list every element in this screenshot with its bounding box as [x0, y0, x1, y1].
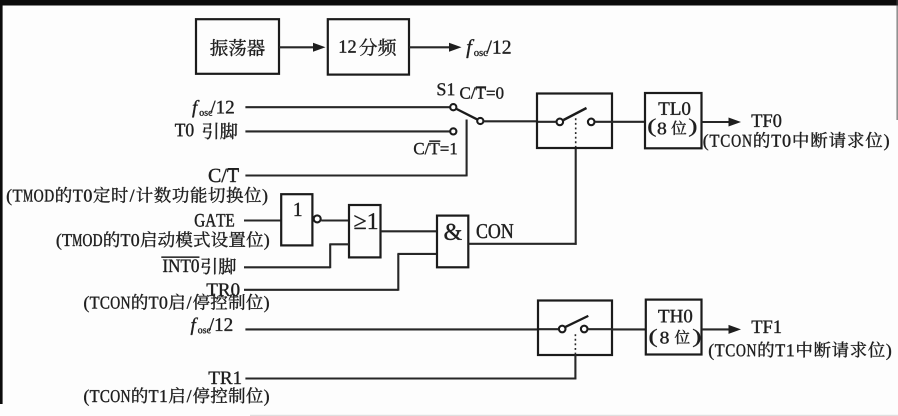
label: 12 分频 (divide by 12): [340, 38, 396, 56]
wire: AND output horizontal (CON): [468, 243, 576, 245]
wire: stub into T1 switch left contact: [538, 328, 558, 330]
scan border: right faint line: [896, 0, 898, 120]
label: GATE: [195, 214, 234, 227]
wire: stub into T0 switch left contact: [537, 121, 556, 123]
label: TH0: [658, 310, 692, 323]
wire: S1 pole to count-enable switch: [483, 120, 537, 122]
caption: TMOD 的 T0 定时/计数功能切换位: [7, 187, 267, 206]
gate: AND box (&): [437, 216, 468, 268]
wire: fosc/12 to T1 switch: [245, 328, 538, 330]
label: fosc/12 (timer 1 input): [191, 318, 233, 335]
wire: INT0 riser to OR gate: [329, 243, 349, 245]
wire: TR0 horizontal: [244, 289, 398, 291]
caption: TMOD 的 T0 启动模式设置位: [57, 231, 269, 250]
label: T0 引脚 (T0 pin): [175, 123, 237, 140]
label: TF0 interrupt flag: [752, 114, 782, 127]
block: TL0 register box: [645, 93, 702, 148]
label: C/T control bit: [209, 168, 239, 182]
switch T1: right contact: [581, 326, 588, 333]
wire: inverter bubble to OR gate: [321, 219, 349, 221]
gate: OR box (≥1): [349, 205, 381, 257]
label: OR gate ≥1: [355, 213, 378, 229]
label: AND gate &: [445, 224, 462, 240]
wire: switch to TL0: [612, 121, 645, 123]
wire: fosc/12 to S1 top contact: [245, 106, 450, 108]
wire: TL0 to TF0 with arrowhead: [701, 118, 741, 127]
gate: inverter box (1): [281, 194, 312, 245]
wire: stub from T0 switch right contact: [595, 121, 612, 123]
label: INT0 引脚 (INT0 pin): [161, 256, 236, 274]
caption: TCON 的 T0 启/停控制位: [84, 294, 269, 313]
switch S1: bottom contact: [450, 128, 456, 134]
wire: T0 pin to S1 bottom contact: [245, 130, 450, 132]
scan border: bottom faint line: [250, 415, 898, 416]
wire: CON riser to count switch: [575, 148, 577, 245]
wire: INT0 to OR gate (horizontal): [244, 266, 330, 268]
label: 振荡器 (oscillator): [210, 39, 265, 56]
label: fosc/12 (timer input): [192, 100, 234, 117]
label: TR0: [207, 283, 240, 296]
wire: TR1 riser to T1 switch: [574, 355, 576, 380]
wire: OR gate to AND gate: [381, 230, 438, 232]
switch T1: left contact: [559, 326, 566, 333]
wire: INT0 riser: [329, 244, 331, 268]
block: oscillator box (振荡器): [196, 19, 279, 74]
wire: CON(T1) dotted link inside switch box: [574, 332, 576, 355]
wire: oscillator to divider with arrowhead: [279, 43, 326, 52]
scan border: left black line: [0, 0, 3, 404]
switch S1: arm: [456, 109, 478, 120]
caption: TCON 的 T0 中断请求位: [704, 132, 889, 151]
wire: GATE to inverter: [244, 219, 282, 221]
wire: TR1 horizontal: [245, 377, 576, 379]
caption: TCON 的 T1 启/停控制位: [84, 387, 269, 406]
scan border: top black bar: [0, 0, 898, 6]
wire: TH0 to TF1 with arrowhead: [702, 325, 741, 334]
wire: C/T riser to S1: [466, 120, 468, 177]
label: fosc/12 (top output): [466, 39, 510, 58]
wire: divider output with arrowhead: [409, 43, 462, 52]
label: C/T=1: [414, 140, 457, 154]
switch: count-enable switch box (T0): [537, 94, 612, 149]
label: TL0: [659, 102, 691, 115]
wire: TR0 riser to AND gate: [397, 253, 437, 255]
label: TL0 (8 位): [648, 119, 696, 137]
label: C/T=0: [460, 86, 503, 99]
wire: T1 switch to TH0: [612, 328, 646, 330]
label: TF1 interrupt flag: [752, 321, 781, 334]
gate: inverter output bubble: [314, 215, 321, 222]
label: switch S1 designator: [438, 83, 455, 95]
switch: count-enable switch box (T1): [538, 301, 612, 356]
switch T0: right contact: [588, 119, 595, 126]
label: inverter 1: [295, 203, 302, 216]
switch S1: top contact: [450, 104, 456, 110]
wire: C/T to S1 (horizontal): [245, 174, 466, 176]
wire: TR0 riser: [397, 254, 399, 291]
label: CON (count enable): [477, 224, 514, 238]
switch T0: left contact: [557, 119, 564, 126]
wire: CON dotted link inside switch box: [575, 118, 577, 148]
caption: TCON 的 T1 中断请求位: [709, 342, 891, 361]
block: TH0 register box: [646, 300, 702, 355]
switch T0: open arm: [564, 108, 587, 120]
label: TH0 (8 位): [650, 329, 701, 347]
label: TR1: [209, 372, 241, 385]
wire: stub from T1 switch right contact: [588, 328, 612, 330]
switch T1: open arm: [565, 316, 588, 327]
block: divide-by-12 box (12 分频): [328, 19, 409, 74]
switch S1: pole contact: [477, 118, 483, 124]
